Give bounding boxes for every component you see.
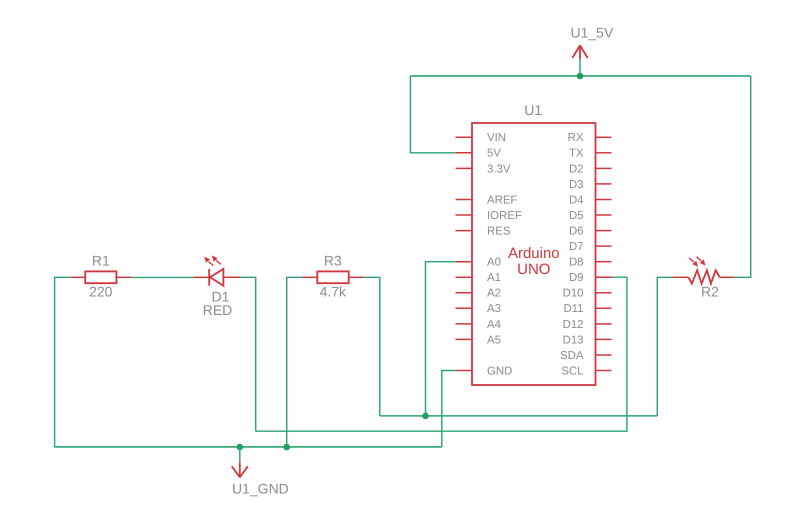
svg-text:Arduino: Arduino xyxy=(508,245,560,262)
wire R1 to D1 xyxy=(131,276,194,278)
power symbol U1_5V arrow xyxy=(572,45,587,59)
svg-text:D10: D10 xyxy=(563,288,584,300)
svg-text:D8: D8 xyxy=(569,257,584,269)
svg-text:VIN: VIN xyxy=(487,132,506,144)
svg-text:5V: 5V xyxy=(487,148,501,160)
svg-text:IOREF: IOREF xyxy=(487,210,522,222)
svg-text:A2: A2 xyxy=(487,288,501,300)
wire GND symbol stub xyxy=(239,447,241,462)
svg-text:RES: RES xyxy=(487,226,511,238)
svg-text:R2: R2 xyxy=(701,284,719,300)
svg-text:UNO: UNO xyxy=(517,261,550,278)
svg-text:A5: A5 xyxy=(487,334,501,346)
left pin labels xyxy=(487,132,522,377)
svg-text:RX: RX xyxy=(568,132,584,144)
svg-text:D2: D2 xyxy=(569,163,584,175)
svg-text:220: 220 xyxy=(89,284,113,300)
svg-text:AREF: AREF xyxy=(487,194,517,206)
wire 5V pin to top rail xyxy=(410,76,455,153)
svg-text:TX: TX xyxy=(569,148,584,160)
svg-text:D12: D12 xyxy=(563,319,584,331)
svg-text:D9: D9 xyxy=(569,272,584,284)
node junction R3 ground xyxy=(283,444,290,451)
LED D1 xyxy=(194,255,240,285)
wire R3 right down xyxy=(364,277,380,416)
wire A0 net horizontal xyxy=(380,415,658,417)
svg-text:A1: A1 xyxy=(487,272,501,284)
svg-text:D13: D13 xyxy=(563,334,584,346)
node junction on 5V rail xyxy=(577,73,584,80)
svg-text:GND: GND xyxy=(487,365,512,377)
svg-text:D6: D6 xyxy=(569,226,584,238)
ground symbol U1_GND arrow xyxy=(232,462,248,477)
wire bottom ground rail xyxy=(55,446,442,448)
svg-text:U1_GND: U1_GND xyxy=(232,481,289,497)
svg-text:SDA: SDA xyxy=(560,350,584,362)
svg-text:D11: D11 xyxy=(563,303,583,315)
svg-text:D3: D3 xyxy=(569,179,584,191)
wire R3 left down to ground rail xyxy=(287,277,303,447)
wire ground rail up to GND pin xyxy=(442,371,456,448)
svg-text:A4: A4 xyxy=(487,319,501,331)
wire D1 net to D9 pin xyxy=(256,277,627,431)
resistor R3 xyxy=(302,271,364,283)
svg-text:D5: D5 xyxy=(569,210,584,222)
svg-text:RED: RED xyxy=(203,302,233,318)
node junction GND symbol xyxy=(237,444,244,451)
svg-text:SCL: SCL xyxy=(561,365,583,377)
right pins group xyxy=(596,137,612,370)
svg-text:D4: D4 xyxy=(569,194,584,206)
wire U1_5V symbol stub xyxy=(579,59,581,76)
resistor R1 xyxy=(70,271,131,283)
node junction A0 net xyxy=(422,413,429,420)
wire top 5V rail xyxy=(410,75,750,77)
svg-text:3.3V: 3.3V xyxy=(487,163,511,175)
wire top rail right drop to R2 xyxy=(735,76,751,277)
svg-text:A0: A0 xyxy=(487,257,501,269)
svg-text:R3: R3 xyxy=(324,253,342,269)
wire R2 left down to A0 net xyxy=(657,277,673,416)
svg-text:A3: A3 xyxy=(487,303,501,315)
svg-text:R1: R1 xyxy=(92,253,110,269)
svg-text:D7: D7 xyxy=(569,241,584,253)
IC U1 Arduino UNO body xyxy=(472,123,596,385)
svg-text:4.7k: 4.7k xyxy=(320,284,347,300)
wire A0 pin down to net xyxy=(426,262,456,416)
photoresistor R2 xyxy=(673,257,735,284)
svg-text:U1_5V: U1_5V xyxy=(571,25,614,41)
right pin labels xyxy=(560,132,584,377)
wire R1 left down to ground rail xyxy=(55,277,71,447)
svg-text:U1: U1 xyxy=(524,102,542,118)
left pins group xyxy=(456,137,473,370)
wire D1 right down xyxy=(240,277,256,431)
